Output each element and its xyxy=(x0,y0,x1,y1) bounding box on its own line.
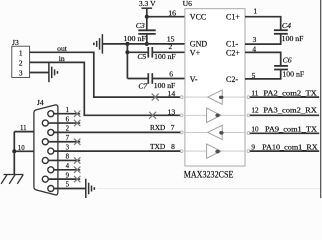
buffer T1 (row B, points right) xyxy=(207,108,221,122)
svg-text:9: 9 xyxy=(251,143,255,151)
J4 pin 4 xyxy=(48,163,80,173)
svg-text:PA3_com2_RX: PA3_com2_RX xyxy=(263,106,317,115)
J4 pin 9 xyxy=(42,172,80,182)
no-ERC X on J4 pin 9 xyxy=(74,176,80,182)
U6 right pin names xyxy=(226,12,240,84)
svg-text:J4: J4 xyxy=(37,98,44,107)
svg-text:V+: V+ xyxy=(190,48,201,57)
wire/net PA10_com1_RX (pin 9) xyxy=(250,142,319,151)
power 3.3 V xyxy=(139,0,156,17)
svg-text:4: 4 xyxy=(66,163,70,170)
buffer T2 (row D, points right) xyxy=(207,144,221,158)
buffer R2 (row C, points left) xyxy=(208,125,224,139)
no-ERC X on in wire xyxy=(149,112,156,119)
svg-text:5: 5 xyxy=(252,71,256,80)
svg-text:U6: U6 xyxy=(183,0,192,8)
svg-text:C3: C3 xyxy=(136,21,145,30)
svg-text:C1+: C1+ xyxy=(226,12,240,21)
wire C4 to U6 pin3 xyxy=(245,35,281,45)
wire C5 to U6 pin2 xyxy=(152,51,184,53)
svg-text:2: 2 xyxy=(19,58,23,67)
svg-text:PA10_com1_RX: PA10_com1_RX xyxy=(262,142,318,151)
wire C6 to U6 pin5 xyxy=(245,70,281,79)
svg-text:16: 16 xyxy=(168,9,176,18)
svg-text:2: 2 xyxy=(66,126,70,133)
svg-text:V-: V- xyxy=(190,75,198,84)
wire/net PA3_com2_RX (pin 12) xyxy=(250,106,319,116)
svg-text:C2-: C2- xyxy=(226,75,238,84)
svg-text:C7: C7 xyxy=(138,81,148,90)
wire GND rail to U6 pin15 xyxy=(102,43,184,45)
wire VCC: 3.3V to U6 pin16 xyxy=(147,16,185,18)
capacitor C5 xyxy=(127,47,152,61)
J4 D-shell outline xyxy=(34,105,58,195)
svg-text:1: 1 xyxy=(253,7,257,16)
no-ERC X on J4 pin 4 xyxy=(74,167,80,173)
J4 pin 6 xyxy=(42,116,80,126)
svg-text:9: 9 xyxy=(66,172,70,179)
J4 pin 7 xyxy=(42,135,80,145)
right page border xyxy=(320,0,322,198)
junction dot shield posts xyxy=(12,149,16,153)
svg-text:RXD: RXD xyxy=(150,124,165,132)
svg-text:7: 7 xyxy=(171,123,175,132)
svg-text:1: 1 xyxy=(19,48,23,57)
svg-text:100 nF: 100 nF xyxy=(154,53,176,61)
svg-text:14: 14 xyxy=(168,89,176,98)
svg-text:8: 8 xyxy=(171,142,175,151)
U6 MAX3232 body xyxy=(185,9,245,166)
svg-text:C5: C5 xyxy=(137,52,146,61)
ground (J4 pin 5) xyxy=(86,179,95,199)
U6 left pin numbers xyxy=(167,9,176,151)
wire RXD: J4 pin2 to U6 pin7 xyxy=(54,124,181,132)
J4 pin 3 xyxy=(48,144,70,154)
junction dot C3/GND xyxy=(145,42,149,46)
svg-text:12: 12 xyxy=(251,107,259,115)
svg-text:TXD: TXD xyxy=(150,143,165,151)
svg-text:in: in xyxy=(59,54,65,63)
svg-text:out: out xyxy=(57,44,68,53)
svg-text:GND: GND xyxy=(190,39,208,48)
svg-text:7: 7 xyxy=(66,135,70,142)
svg-text:5: 5 xyxy=(66,182,70,189)
svg-text:4: 4 xyxy=(252,44,256,53)
capacitor C3 xyxy=(136,17,156,44)
J4 pin 2 xyxy=(48,126,70,136)
junction dot GND/C5-C7 branch xyxy=(125,42,129,46)
wire in: J3 pin2 to U6 pin13 xyxy=(30,54,181,115)
svg-text:8: 8 xyxy=(66,154,70,161)
svg-text:C4: C4 xyxy=(282,21,291,30)
capacitor C7 xyxy=(127,73,152,90)
J4 pin 1 xyxy=(48,107,80,117)
svg-text:10: 10 xyxy=(251,126,259,134)
junction dot 3.3V / pin16 xyxy=(145,15,149,19)
wire U6 pin4 to C6 xyxy=(245,52,281,65)
svg-text:PA9_com1_TX: PA9_com1_TX xyxy=(265,125,318,134)
svg-text:3: 3 xyxy=(19,69,23,78)
svg-text:3: 3 xyxy=(253,35,257,44)
svg-text:C1-: C1- xyxy=(226,39,238,48)
wire J3 pin3 to ground xyxy=(30,72,49,74)
faint table rule xyxy=(97,188,320,190)
no-ERC X on J4 pin 1 xyxy=(74,111,80,117)
wire/net PA9_com1_TX (pin 10) xyxy=(250,125,319,134)
no-ERC X on J4 pin 6 xyxy=(74,120,80,126)
junction dot branch/C5 xyxy=(125,50,129,54)
J4 shield post 10 xyxy=(14,145,34,152)
no-ERC X on J4 pin 7 xyxy=(74,139,80,145)
svg-text:MAX3232CSE: MAX3232CSE xyxy=(184,170,234,181)
svg-text:C2+: C2+ xyxy=(226,48,240,57)
svg-text:100 nF: 100 nF xyxy=(282,70,304,78)
wire/net PA2_com2_TX (pin 11) xyxy=(250,88,319,97)
no-ERC X on J4 pin 8 xyxy=(74,157,80,163)
no-ERC X on out wire xyxy=(152,94,159,101)
wire branch down to C5/C7 xyxy=(126,44,128,79)
J4 pin 8 xyxy=(42,154,80,164)
svg-text:1: 1 xyxy=(66,107,69,114)
U6 left pin names xyxy=(190,12,208,84)
svg-text:3: 3 xyxy=(66,144,70,151)
svg-text:11: 11 xyxy=(251,89,258,97)
svg-text:VCC: VCC xyxy=(190,12,206,21)
wire C7 to U6 pin6 xyxy=(152,78,184,80)
wire out: J3 pin1 to U6 pin14 xyxy=(30,44,181,97)
wire shield to chassis ground xyxy=(13,132,15,175)
svg-text:6: 6 xyxy=(169,69,173,78)
svg-text:6: 6 xyxy=(66,116,70,123)
J4 shield post 11 xyxy=(14,125,34,132)
pin hotspot circles left xyxy=(180,96,183,153)
svg-text:C6: C6 xyxy=(283,55,292,64)
pin hotspot circles right xyxy=(247,96,250,153)
wire TXD: J4 pin3 to U6 pin8 xyxy=(54,143,181,151)
chassis ground xyxy=(1,175,23,184)
svg-text:13: 13 xyxy=(168,107,176,116)
J4 pin 5 xyxy=(48,182,86,192)
ground (J3 pin 3) xyxy=(49,63,58,83)
svg-text:3.3 V: 3.3 V xyxy=(139,0,156,8)
svg-text:2: 2 xyxy=(168,42,172,51)
ground (GND rail) xyxy=(94,34,103,54)
svg-text:PA2_com2_TX: PA2_com2_TX xyxy=(263,88,317,97)
capacitor C4 xyxy=(274,21,291,34)
buffer R1 (row A, points left) xyxy=(208,90,224,104)
svg-text:100 nF: 100 nF xyxy=(282,35,304,43)
connector J3 xyxy=(12,38,30,77)
wire U6 pin1 to C4 xyxy=(245,17,281,30)
buffer row lines inside U6 xyxy=(185,97,244,151)
capacitor C6 xyxy=(274,55,292,69)
